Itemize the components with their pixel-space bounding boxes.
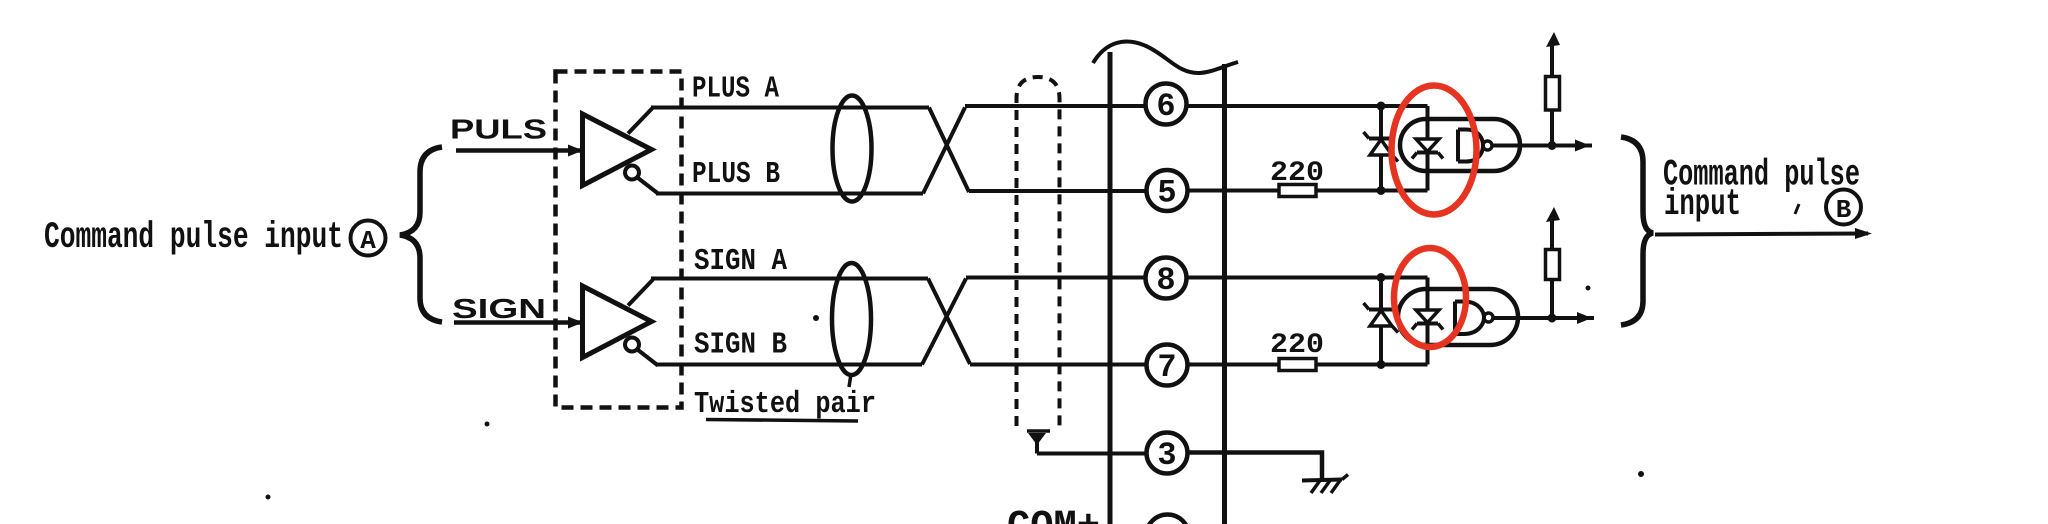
- shield drain arrow: [1027, 429, 1050, 433]
- svg-text:A: A: [360, 226, 376, 256]
- terminal 6: [1146, 84, 1187, 126]
- svg-text:8: 8: [1156, 262, 1175, 299]
- optocoupler PC2 package: [1398, 289, 1518, 345]
- pull-up resistor R4: [1546, 207, 1561, 318]
- line driver U1 (PULS): [583, 108, 659, 194]
- twisted pair ellipse PULS: [833, 96, 872, 202]
- connector edge line right: [1222, 64, 1227, 524]
- terminal 7: [1147, 345, 1188, 387]
- shield dashed oval: [1017, 77, 1060, 426]
- twisted pair crossover SIGN: [928, 279, 970, 365]
- optocoupler PC1 package: [1400, 119, 1520, 171]
- wire pin3 to ground: [1189, 453, 1322, 481]
- svg-text:Twisted pair: Twisted pair: [694, 387, 876, 422]
- wire pin6 to opto PC1: [1188, 104, 1428, 108]
- wire SIGN A: [651, 277, 928, 281]
- output wire PC1: [1492, 144, 1592, 148]
- terminal 3: [1147, 433, 1188, 475]
- svg-text:3: 3: [1157, 437, 1176, 474]
- wire PULS input: [456, 148, 580, 153]
- terminal 5: [1147, 170, 1188, 212]
- arrow line under label B: [1655, 234, 1868, 235]
- svg-text:5: 5: [1157, 175, 1176, 212]
- svg-text:PULS: PULS: [450, 114, 547, 145]
- node B circled letter: [1826, 190, 1861, 226]
- resistor R1 220: [1279, 185, 1316, 197]
- stray specks: [485, 422, 490, 427]
- svg-text:Command pulse input: Command pulse input: [44, 217, 343, 259]
- svg-text:SIGN A: SIGN A: [694, 244, 787, 279]
- protection diode D1 branch: [1379, 106, 1383, 191]
- wire R2 to opto PC2: [1316, 363, 1428, 367]
- svg-text:SIGN B: SIGN B: [694, 328, 787, 363]
- protection diode D2 branch: [1379, 278, 1383, 365]
- wire SIGN B: [656, 363, 922, 367]
- svg-text:SIGN: SIGN: [452, 293, 546, 324]
- arrowhead into driver U1: [568, 145, 583, 157]
- svg-text:220: 220: [1270, 330, 1324, 361]
- wire pin7 to resistor R2: [1189, 363, 1279, 367]
- wire to pin 5: [969, 189, 1145, 193]
- dashed box around drivers: [556, 72, 682, 408]
- red circle highlight 1: [1392, 86, 1477, 215]
- svg-text:input: input: [1664, 184, 1741, 226]
- svg-text:220: 220: [1270, 158, 1324, 189]
- connector edge line left: [1108, 52, 1113, 524]
- wire to pin 7: [970, 363, 1145, 367]
- resistor R2 220: [1279, 359, 1316, 371]
- twisted pair crossover PULS: [929, 108, 969, 193]
- wire SIGN input: [454, 320, 580, 325]
- svg-text:PLUS A: PLUS A: [692, 72, 779, 107]
- svg-text:PLUS B: PLUS B: [692, 157, 780, 192]
- svg-text:6: 6: [1156, 88, 1175, 125]
- node A circled letter: [351, 221, 386, 257]
- terminal partial bottom: [1146, 515, 1189, 524]
- break wavy line at connector top: [1093, 41, 1238, 73]
- ellipse tail tick: [849, 374, 851, 387]
- svg-text:COM+: COM+: [1007, 505, 1100, 524]
- twisted pair ellipse SIGN: [832, 263, 871, 375]
- terminal 8: [1146, 258, 1187, 300]
- svg-text:B: B: [1836, 195, 1852, 225]
- red circle highlight 2: [1394, 248, 1466, 347]
- LED of PC1: [1412, 106, 1443, 191]
- wire PLUS A: [651, 106, 929, 110]
- wire pin8 to opto PC2: [1188, 276, 1428, 280]
- diode D2 symbol: [1364, 303, 1399, 333]
- right brace: [1621, 137, 1653, 325]
- photodetector of PC1: [1458, 130, 1492, 162]
- left brace: [400, 147, 442, 322]
- wire PLUS B: [656, 192, 923, 196]
- underline for Twisted pair: [706, 420, 858, 422]
- wire to pin 6: [965, 104, 1144, 108]
- wire R1 to opto PC1: [1316, 189, 1428, 193]
- stray comma mark: [1795, 204, 1799, 214]
- line driver U2 (SIGN): [583, 280, 659, 366]
- svg-text:7: 7: [1157, 349, 1176, 386]
- wire to pin 8: [966, 276, 1144, 280]
- ground: [1302, 475, 1348, 494]
- LED of PC2: [1412, 278, 1443, 365]
- arrowhead into driver U2: [568, 317, 583, 329]
- diode D1 symbol: [1364, 132, 1399, 162]
- wire shield to pin 3: [1037, 452, 1146, 456]
- output wire PC2: [1493, 316, 1594, 320]
- wire pin5 to resistor R1: [1189, 189, 1279, 193]
- pull-up resistor R3: [1546, 32, 1561, 146]
- photodetector of PC2: [1455, 302, 1493, 335]
